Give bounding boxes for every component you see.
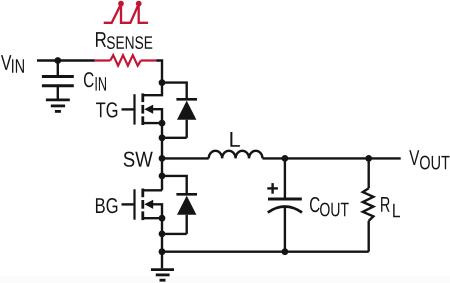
wire BG drain to diode cathode (162, 176, 187, 194)
bottom edge strip (0, 276, 450, 283)
label RSENSE (96, 32, 106, 47)
inductor current waveform icon (104, 1, 148, 23)
capacitor COUT (268, 158, 302, 251)
node SW (159, 155, 166, 162)
label VOUT (409, 150, 419, 165)
label RL (381, 197, 390, 212)
wire diode anode to main line (162, 137, 187, 139)
node COUT top junction (282, 155, 289, 162)
node diode anode junction (159, 134, 166, 141)
transistor TG (top MOSFET) (122, 93, 163, 125)
node diode anode junction (159, 231, 166, 238)
wire VIN to RSENSE (37, 59, 95, 61)
node COUT bottom junction (282, 248, 289, 255)
wire bottom rail (162, 250, 369, 252)
resistor RL (363, 158, 374, 251)
wire TG source to SW (161, 123, 163, 158)
node BG source (159, 215, 166, 222)
wire BG drain stub (143, 189, 162, 191)
label SW (124, 152, 153, 167)
wire SW to BG drain (161, 158, 163, 190)
inductor L (209, 151, 263, 159)
wire RSENSE to TG drain (143, 61, 162, 96)
wire TG drain to diode cathode (162, 83, 187, 100)
resistor RSENSE (94, 55, 157, 65)
label TG (96, 102, 117, 117)
node ground rail junction (159, 248, 166, 255)
label VIN (1, 55, 11, 70)
wire output rail (263, 157, 401, 159)
node VIN/CIN junction (54, 57, 61, 64)
label BG (96, 198, 117, 213)
diode (TG body diode) (176, 99, 197, 138)
node TG source (159, 120, 166, 127)
ground (CIN) (46, 100, 70, 112)
label L (230, 132, 240, 147)
node TG drain / diode junction (159, 79, 166, 86)
transistor BG (bottom MOSFET) (122, 189, 163, 221)
diode (BG body diode) (176, 194, 197, 234)
plus polarity mark (267, 183, 278, 194)
wire SW to inductor (162, 157, 209, 159)
node BG drain / diode junction (159, 173, 166, 180)
wire diode anode to main line (162, 233, 187, 235)
ground (main) (151, 252, 174, 281)
wire BG source to ground rail (161, 218, 163, 252)
label COUT (310, 197, 320, 212)
node RL top junction (365, 155, 372, 162)
capacitor CIN (42, 61, 74, 100)
label CIN (84, 72, 94, 87)
